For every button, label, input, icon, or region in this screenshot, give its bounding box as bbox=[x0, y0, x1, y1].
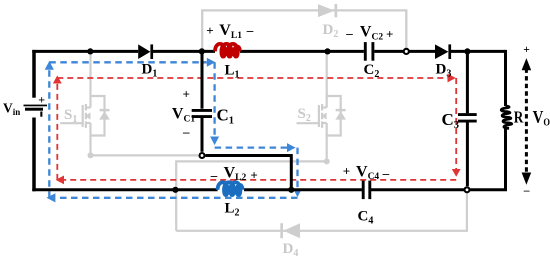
svg-text:VL1: VL1 bbox=[219, 22, 242, 41]
wire left rail below battery bbox=[32, 118, 36, 192]
node: open circle C1 bottom junction bbox=[200, 153, 205, 158]
red arrow up (top-left corner) bbox=[53, 75, 62, 83]
svg-text:D2: D2 bbox=[323, 22, 339, 40]
wire blue loop left vertical bbox=[48, 70, 50, 198]
wire C3 branch bottom bbox=[466, 123, 469, 187]
wire top rail: Vin corner to D1 bbox=[32, 50, 138, 53]
red arrow right (top-right corner) bbox=[448, 74, 456, 83]
svg-text:S1: S1 bbox=[64, 107, 77, 125]
transistor S2 (gray MOSFET with body diode) bbox=[297, 53, 341, 161]
svg-text:–: – bbox=[382, 166, 390, 181]
diode D1 bbox=[138, 44, 153, 59]
wire blue loop vertical at x297 bbox=[296, 148, 298, 189]
node D: D3/C3 junction bbox=[464, 48, 470, 54]
wire bottom rail: left corner to node bbox=[32, 188, 217, 191]
diode D2 branch wire (gray loop over top) bbox=[202, 10, 406, 51]
node: top rail S1 drain junction bbox=[87, 48, 93, 54]
svg-text:+: + bbox=[343, 164, 350, 179]
red arrow down (bottom-right corner) bbox=[452, 169, 461, 177]
svg-text:L2: L2 bbox=[225, 201, 240, 219]
svg-text:–: – bbox=[210, 167, 218, 182]
svg-text:+: + bbox=[183, 87, 190, 102]
capacitor C4 bbox=[363, 181, 370, 200]
svg-text:C1: C1 bbox=[217, 106, 235, 127]
svg-text:VC1: VC1 bbox=[172, 106, 195, 125]
wire left rail above battery bbox=[32, 50, 36, 98]
wire C3 branch top bbox=[466, 51, 469, 113]
svg-text:–: – bbox=[523, 185, 530, 197]
svg-text:–: – bbox=[182, 124, 190, 139]
svg-text:VL2: VL2 bbox=[224, 164, 247, 183]
svg-text:+: + bbox=[250, 167, 257, 182]
svg-text:C4: C4 bbox=[358, 209, 374, 227]
blue arrow down (corner at C1 side) bbox=[210, 137, 219, 146]
svg-text:C2: C2 bbox=[364, 62, 380, 80]
wire blue loop mid vertical at L1 node bbox=[213, 62, 215, 136]
wire bottom rail: L2 to C4 bbox=[244, 188, 362, 191]
svg-text:Vin: Vin bbox=[3, 100, 20, 117]
diode D4 (points left) bbox=[280, 223, 300, 238]
wire C1 branch bottom to open node bbox=[201, 118, 204, 152]
wire blue loop bottom horizontal bbox=[57, 197, 298, 199]
wire blue loop top horizontal bbox=[49, 61, 207, 63]
node S2 source junction (gray dot) bbox=[324, 158, 330, 164]
svg-text:S2: S2 bbox=[298, 106, 311, 124]
blue arrow right (corner above L1) bbox=[207, 58, 216, 67]
node C: open circle C2/D2/D3 junction bbox=[404, 49, 409, 54]
wire C1 node to rail drop bbox=[206, 156, 292, 190]
svg-text:VO: VO bbox=[533, 108, 550, 129]
svg-text:D4: D4 bbox=[283, 241, 299, 256]
node S1 source junction (gray dot) bbox=[88, 152, 94, 158]
capacitor C1 bbox=[192, 110, 212, 116]
capacitor C3 bbox=[458, 115, 477, 122]
wire top rail: D1 to L1 bbox=[153, 50, 215, 53]
node A: D1/L1/C1 junction bbox=[199, 48, 205, 54]
wire right output vertical (bottom) bbox=[504, 128, 507, 189]
wire red loop bottom horizontal bbox=[64, 179, 456, 181]
svg-text:D1: D1 bbox=[142, 62, 158, 80]
battery Vin bbox=[24, 105, 48, 117]
blue arrow right (mid horizontal end) bbox=[287, 143, 296, 152]
diode D4 branch wire (gray bottom loop) bbox=[176, 193, 467, 231]
blue arrow left (bottom-left corner) bbox=[47, 193, 56, 202]
Vo output arrow (black dashed, double headed) bbox=[522, 58, 532, 185]
wire right output vertical (top) bbox=[504, 50, 507, 106]
svg-text:D3: D3 bbox=[436, 62, 452, 80]
svg-text:–: – bbox=[246, 23, 254, 38]
diode D2 bbox=[318, 4, 337, 17]
blue arrow up (top-left corner) bbox=[45, 61, 54, 70]
svg-text:+: + bbox=[206, 23, 213, 38]
svg-text:–: – bbox=[345, 26, 353, 41]
svg-text:+: + bbox=[523, 44, 530, 56]
capacitor C2 bbox=[365, 42, 373, 61]
red arrow left (bottom-left corner) bbox=[56, 176, 64, 185]
wire bottom rail: C4 to right corner bbox=[371, 188, 507, 191]
wire top rail: C2 to D3 bbox=[374, 50, 435, 53]
wire S2 source to bottom rail (gray) bbox=[176, 161, 327, 230]
wire top rail: L1 to C2 bbox=[240, 50, 364, 53]
wire S1 source to C1 bottom node (gray) bbox=[91, 154, 199, 156]
node B: S2 drain junction bbox=[324, 48, 330, 54]
diode D3 bbox=[435, 44, 451, 59]
wire blue loop mid horizontal bbox=[215, 146, 287, 148]
svg-text:VC2: VC2 bbox=[360, 24, 383, 43]
node: bottom rail C1-branch junction bbox=[288, 187, 294, 193]
svg-text:R: R bbox=[514, 108, 524, 127]
blue arrow down (corner x297) bbox=[293, 189, 302, 198]
wire red loop top horizontal bbox=[57, 77, 447, 79]
svg-text:+: + bbox=[38, 92, 45, 106]
wire C1 branch top bbox=[201, 51, 204, 108]
node: open circle bottom rail C3/D4 junction bbox=[465, 187, 470, 192]
node: bottom rail S2/D4 junction bbox=[172, 187, 178, 193]
svg-text:L1: L1 bbox=[225, 63, 240, 81]
transistor S1 (gray MOSFET with body diode) bbox=[60, 53, 104, 155]
wire red loop right vertical bbox=[455, 78, 457, 169]
svg-text:+: + bbox=[386, 26, 393, 41]
wire top rail: D3 to output corner bbox=[451, 50, 506, 53]
inductor L1 (red coil) bbox=[215, 44, 240, 57]
resistor R (vertical coil squiggle) bbox=[501, 106, 512, 128]
inductor L2 (blue coil) bbox=[218, 182, 243, 195]
svg-text:VC4: VC4 bbox=[356, 163, 379, 182]
wire red loop left vertical bbox=[56, 84, 58, 180]
